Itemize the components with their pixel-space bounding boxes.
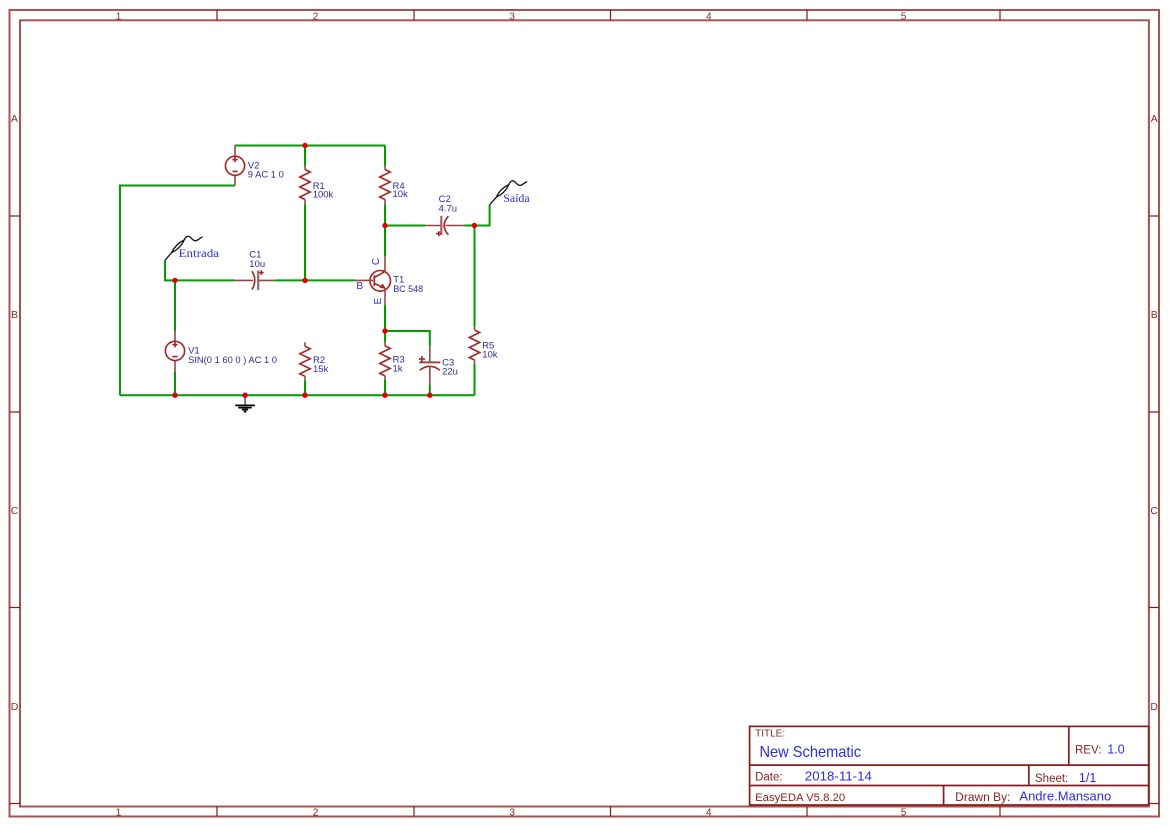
svg-text:2: 2 bbox=[313, 807, 319, 818]
svg-text:C: C bbox=[371, 258, 382, 265]
wire C2 right bbox=[464, 225, 474, 227]
svg-text:2018-11-14: 2018-11-14 bbox=[805, 770, 872, 784]
svg-text:Sheet:: Sheet: bbox=[1035, 773, 1068, 785]
capacitor C1 bbox=[235, 270, 275, 290]
junction top rail R1 bbox=[302, 143, 307, 148]
wire C2 left bbox=[385, 225, 425, 227]
svg-text:1: 1 bbox=[116, 11, 122, 22]
wire top rail bbox=[235, 145, 385, 147]
C3 value label bbox=[442, 367, 458, 378]
R5 value label bbox=[482, 350, 498, 361]
svg-text:B: B bbox=[11, 309, 18, 321]
resistor R5 bbox=[469, 326, 479, 364]
svg-text:10u: 10u bbox=[249, 259, 265, 270]
T1 pin label C bbox=[371, 258, 382, 265]
R4 value label bbox=[393, 189, 409, 200]
resistor R4 bbox=[380, 166, 390, 205]
wire V1 bottom bbox=[174, 371, 176, 395]
R2 value label bbox=[313, 364, 329, 375]
svg-text:D: D bbox=[1150, 701, 1158, 713]
transistor T1 bbox=[355, 256, 391, 305]
V2 reference label bbox=[248, 161, 260, 172]
svg-text:4: 4 bbox=[706, 11, 712, 22]
C2 reference label bbox=[439, 194, 451, 205]
junction rail R3 bbox=[382, 393, 387, 398]
svg-text:A: A bbox=[1151, 113, 1158, 125]
wire emitter node to C3 bbox=[385, 331, 430, 346]
wire Entrada stub bbox=[165, 260, 235, 280]
voltage source V1 bbox=[165, 331, 184, 371]
resistor R1 bbox=[300, 166, 310, 205]
net flag Entrada bbox=[165, 236, 203, 260]
svg-text:D: D bbox=[11, 701, 19, 713]
svg-text:1k: 1k bbox=[393, 364, 403, 375]
net flag Saida bbox=[490, 181, 528, 205]
C1 reference label bbox=[249, 250, 261, 261]
svg-text:E: E bbox=[373, 298, 384, 305]
voltage source V2 bbox=[225, 146, 244, 186]
svg-text:1.0: 1.0 bbox=[1107, 742, 1124, 756]
svg-text:A: A bbox=[11, 113, 18, 125]
T1 value label bbox=[393, 284, 423, 295]
svg-text:Saída: Saída bbox=[503, 191, 530, 205]
wire R5 bottom bbox=[474, 364, 476, 395]
svg-text:Date:: Date: bbox=[755, 772, 783, 784]
wire V1 top bbox=[174, 280, 176, 331]
R1 value label bbox=[313, 190, 334, 201]
svg-text:C: C bbox=[11, 505, 19, 517]
wire R4 bottom bbox=[384, 205, 386, 226]
R3 reference label bbox=[393, 355, 405, 366]
R2 reference label bbox=[313, 355, 325, 366]
V1 value label bbox=[188, 355, 277, 366]
svg-text:3: 3 bbox=[509, 807, 515, 818]
T1 reference label bbox=[393, 275, 404, 286]
svg-text:REV:: REV: bbox=[1075, 744, 1101, 756]
resistor R3 bbox=[380, 342, 390, 380]
R3 value label bbox=[393, 364, 403, 375]
wire output node to Saida flag bbox=[474, 205, 489, 226]
junction rail V1 bbox=[172, 393, 177, 398]
wire C3 bottom bbox=[429, 385, 431, 395]
C3 reference label bbox=[442, 358, 454, 369]
junction output node bbox=[472, 223, 477, 228]
T1 pin label B bbox=[356, 281, 363, 292]
T1 pin label E bbox=[373, 298, 384, 305]
wire R3 top bbox=[384, 331, 386, 342]
svg-text:TITLE:: TITLE: bbox=[755, 729, 785, 740]
svg-text:SIN(0 1 60 0 ) AC 1 0: SIN(0 1 60 0 ) AC 1 0 bbox=[188, 355, 277, 366]
junction collector node bbox=[382, 223, 387, 228]
svg-text:4.7u: 4.7u bbox=[439, 204, 458, 215]
V2 value label bbox=[248, 170, 284, 181]
junction input node bbox=[172, 278, 177, 283]
wire bottom ground rail bbox=[120, 394, 475, 396]
svg-text:New Schematic: New Schematic bbox=[760, 744, 862, 761]
wire R2 bottom bbox=[304, 380, 306, 395]
svg-text:BC 548: BC 548 bbox=[393, 284, 423, 295]
V1 reference label bbox=[188, 345, 200, 356]
capacitor C2 bbox=[425, 216, 464, 236]
R5 reference label bbox=[482, 340, 494, 351]
Saida net label bbox=[503, 191, 530, 205]
wire R1 top bbox=[304, 146, 306, 166]
wire R5 top bbox=[474, 226, 476, 327]
wire V2 negative to left rail bbox=[120, 186, 235, 396]
svg-text:5: 5 bbox=[901, 807, 907, 818]
junction rail ground bbox=[242, 393, 247, 398]
svg-text:1/1: 1/1 bbox=[1079, 771, 1096, 785]
svg-text:22u: 22u bbox=[442, 367, 458, 378]
svg-text:5: 5 bbox=[901, 11, 907, 22]
C2 value label bbox=[439, 204, 458, 215]
svg-text:2: 2 bbox=[313, 11, 319, 22]
R1 reference label bbox=[313, 181, 325, 192]
svg-text:9 AC 1 0: 9 AC 1 0 bbox=[248, 170, 284, 181]
wire R4 top bbox=[384, 146, 386, 166]
svg-text:B: B bbox=[1151, 309, 1158, 321]
svg-text:100k: 100k bbox=[313, 190, 334, 201]
svg-text:B: B bbox=[356, 281, 363, 292]
svg-text:15k: 15k bbox=[313, 364, 329, 375]
svg-text:Entrada: Entrada bbox=[179, 246, 220, 260]
title block bbox=[750, 726, 1149, 805]
junction rail R2 bbox=[302, 393, 307, 398]
svg-text:4: 4 bbox=[706, 807, 712, 818]
R4 reference label bbox=[393, 181, 405, 192]
ground bbox=[235, 395, 255, 411]
junction emitter node bbox=[382, 328, 387, 333]
wire emitter bbox=[384, 305, 386, 331]
junction base node bbox=[302, 278, 307, 283]
svg-text:EasyEDA V5.8.20: EasyEDA V5.8.20 bbox=[755, 792, 845, 804]
wire R1 bottom to base node bbox=[304, 205, 306, 281]
wire collector bbox=[384, 226, 386, 257]
svg-text:1: 1 bbox=[116, 807, 122, 818]
svg-text:C: C bbox=[1150, 505, 1158, 517]
C1 value label bbox=[249, 259, 265, 270]
svg-text:Drawn By:: Drawn By: bbox=[955, 792, 1010, 804]
capacitor C3 bbox=[419, 346, 441, 385]
Entrada net label bbox=[179, 246, 220, 260]
svg-text:10k: 10k bbox=[393, 189, 409, 200]
svg-text:Andre.Mansano: Andre.Mansano bbox=[1019, 790, 1111, 804]
junction rail C3 bbox=[427, 393, 432, 398]
svg-text:3: 3 bbox=[509, 11, 515, 22]
svg-text:10k: 10k bbox=[482, 350, 498, 361]
wire C1 to base bbox=[275, 279, 355, 281]
resistor R2 bbox=[300, 342, 310, 380]
wire R3 bottom bbox=[384, 380, 386, 395]
